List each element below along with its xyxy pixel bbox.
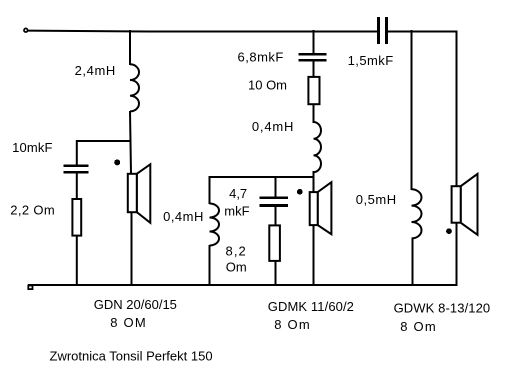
svg-text:8 OM: 8 OM	[110, 315, 147, 330]
svg-text:GDN 20/60/15: GDN 20/60/15	[94, 297, 177, 312]
svg-text:0,5mH: 0,5mH	[356, 192, 397, 207]
svg-text:8 Om: 8 Om	[274, 317, 311, 332]
svg-text:10 Om: 10 Om	[248, 78, 287, 93]
svg-text:1,5mkF: 1,5mkF	[348, 53, 394, 68]
svg-text:Zwrotnica Tonsil Perfekt 150: Zwrotnica Tonsil Perfekt 150	[50, 349, 213, 364]
svg-text:8,2: 8,2	[226, 244, 247, 259]
svg-text:6,8mkF: 6,8mkF	[238, 50, 284, 65]
svg-text:0,4mH: 0,4mH	[252, 119, 294, 134]
svg-text:GDMK 11/60/2: GDMK 11/60/2	[268, 299, 354, 314]
svg-text:GDWK 8-13/120: GDWK 8-13/120	[394, 300, 491, 315]
svg-text:2,2 Om: 2,2 Om	[10, 202, 55, 217]
svg-text:8 Om: 8 Om	[400, 319, 437, 334]
svg-text:10mkF: 10mkF	[12, 140, 52, 155]
svg-text:4,7: 4,7	[229, 186, 247, 201]
svg-text:0,4mH: 0,4mH	[163, 209, 204, 224]
svg-text:Om: Om	[226, 260, 247, 275]
svg-text:2,4mH: 2,4mH	[75, 63, 116, 78]
svg-text:mkF: mkF	[224, 203, 249, 218]
